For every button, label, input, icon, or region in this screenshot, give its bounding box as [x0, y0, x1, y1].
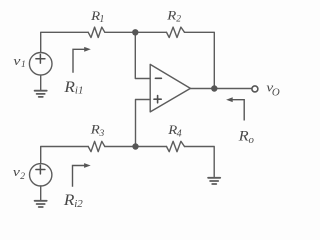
svg-text:R: R: [63, 79, 75, 96]
svg-text:o: o: [249, 134, 255, 146]
svg-text:v: v: [13, 53, 20, 68]
svg-text:i1: i1: [75, 85, 84, 97]
svg-text:R: R: [90, 122, 100, 137]
svg-text:v: v: [13, 164, 20, 179]
svg-text:1: 1: [99, 14, 104, 25]
svg-text:2: 2: [176, 15, 181, 25]
svg-text:2: 2: [20, 172, 25, 182]
svg-text:R: R: [238, 129, 249, 145]
svg-text:R: R: [63, 192, 75, 209]
svg-text:3: 3: [99, 129, 105, 139]
svg-text:O: O: [272, 87, 280, 99]
svg-text:i2: i2: [74, 198, 83, 210]
svg-text:R: R: [166, 8, 176, 23]
svg-text:4: 4: [177, 128, 182, 139]
svg-text:1: 1: [21, 60, 26, 70]
